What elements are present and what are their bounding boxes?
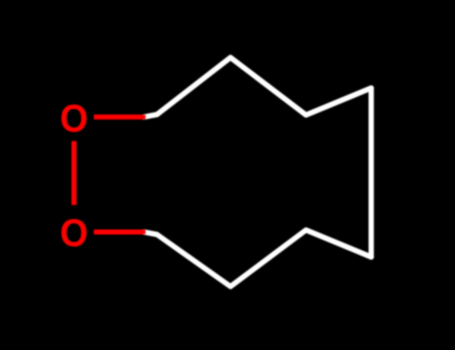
bond C1-C8 upper zigzag <box>144 58 371 118</box>
bond O1-C1 <box>94 114 146 119</box>
bond O1-O2 peroxide <box>71 141 76 205</box>
carbon skeleton (white bonds) <box>144 58 371 287</box>
svg-text:O: O <box>60 211 88 254</box>
svg-text:O: O <box>60 96 88 139</box>
bond C8-C7 right vertical <box>369 88 374 257</box>
bond C2-C7 lower zigzag <box>144 230 371 287</box>
bond O2-C2 <box>94 229 146 234</box>
